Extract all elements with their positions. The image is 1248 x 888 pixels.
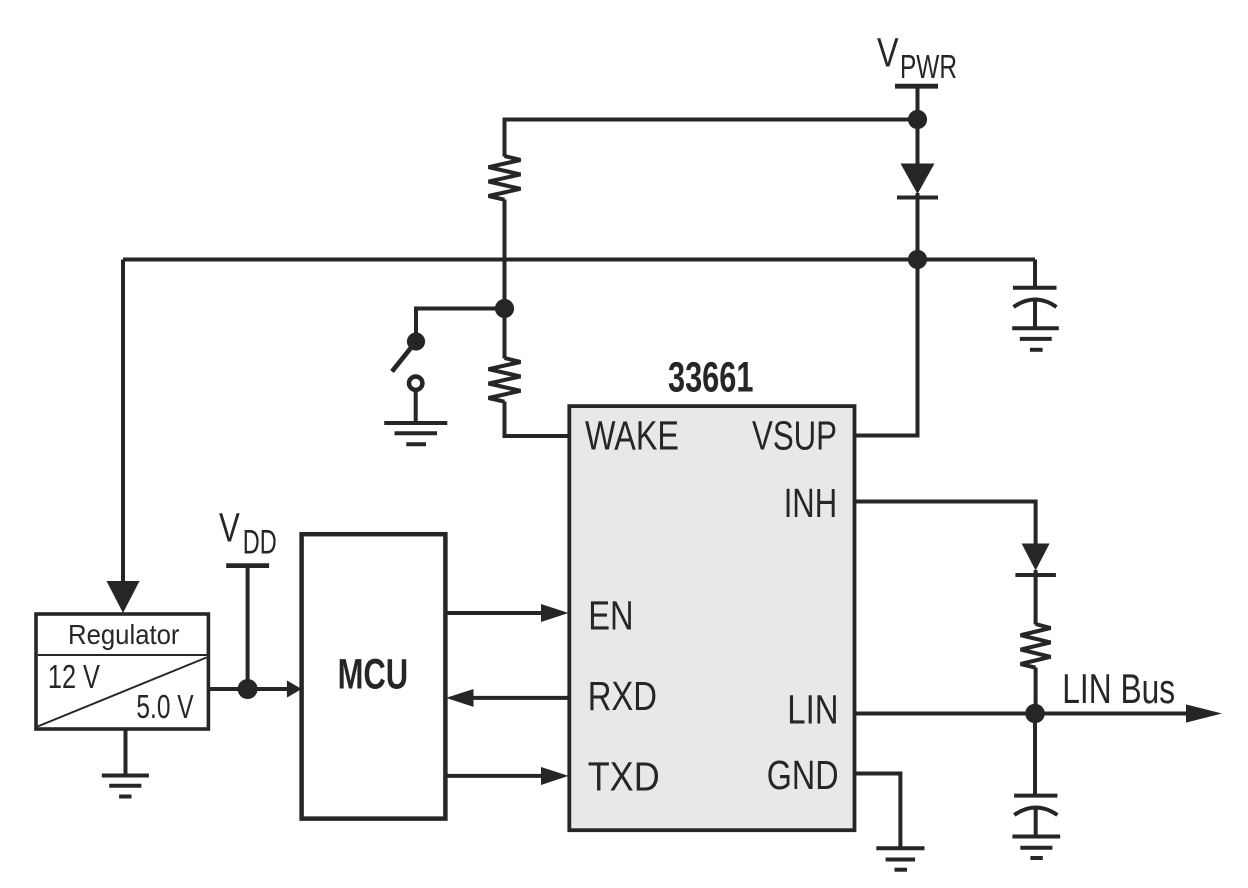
MCU body: [302, 534, 446, 818]
wire GND pin to ground: [855, 774, 901, 848]
svg-text:5.0 V: 5.0 V: [136, 688, 193, 725]
svg-text:EN: EN: [588, 593, 633, 639]
V_DD supply bar: [226, 563, 269, 568]
svg-text:PWR: PWR: [900, 48, 957, 85]
resistor R1: [489, 156, 521, 200]
wire regulator to ground: [124, 729, 128, 775]
wire long horizontal bus: [123, 258, 1035, 262]
IC 33661 body: [569, 406, 854, 830]
V_PWR supply bar: [895, 84, 938, 89]
wire D1 to VSUP node: [916, 193, 920, 260]
wire VSUP drop to pin: [855, 260, 918, 436]
svg-text:DD: DD: [243, 524, 277, 562]
wire V_DD to node: [246, 566, 250, 689]
switch lever: [392, 342, 416, 372]
wire node to switch: [416, 309, 505, 342]
svg-text:LIN: LIN: [787, 686, 838, 732]
resistor R3: [1021, 624, 1051, 668]
node V_DD junction: [238, 679, 258, 699]
svg-text:Regulator: Regulator: [68, 619, 180, 650]
svg-text:RXD: RXD: [588, 673, 657, 719]
node VSUP junction: [908, 250, 927, 269]
wire LIN to bus with arrow: [855, 704, 1223, 722]
ground for regulator: [102, 776, 149, 797]
diode D2: [1015, 544, 1056, 576]
wire R2 to WAKE pin: [505, 402, 571, 437]
net label V_PWR: [877, 30, 957, 86]
wire EN with arrow: [445, 604, 568, 622]
resistor R2: [489, 358, 521, 402]
wire INH to diode D2: [855, 502, 1036, 545]
ground for C1: [1012, 328, 1059, 350]
wire LIN node to capacitor C2: [1033, 714, 1037, 796]
net label V_DD: [219, 504, 277, 561]
wire V_PWR node to diode D1: [916, 120, 920, 166]
ground for C2: [1012, 837, 1060, 859]
wire regulator output to node: [208, 687, 247, 691]
wire node to MCU with arrow: [248, 680, 302, 697]
node V_PWR junction: [908, 110, 927, 129]
node WAKE junction: [495, 299, 514, 318]
svg-text:MCU: MCU: [338, 651, 409, 699]
arrow into regulator: [107, 581, 140, 613]
svg-text:33661: 33661: [668, 354, 753, 402]
wire RXD with arrow: [446, 689, 569, 707]
regulator box: [36, 614, 208, 729]
ground for switch: [384, 423, 447, 444]
wire R1 to WAKE node: [503, 200, 507, 309]
wire left drop to regulator: [121, 260, 125, 584]
svg-text:GND: GND: [767, 752, 839, 798]
svg-text:V: V: [219, 504, 240, 550]
wire switch to ground: [414, 390, 418, 424]
svg-text:INH: INH: [784, 480, 837, 526]
wire R3 to LIN node: [1034, 668, 1038, 714]
svg-text:V: V: [877, 30, 899, 76]
capacitor C1: [1013, 288, 1057, 329]
svg-text:VSUP: VSUP: [752, 412, 837, 458]
wire TXD with arrow: [445, 767, 568, 785]
ground for GND pin: [876, 848, 924, 870]
capacitor C2: [1014, 796, 1057, 837]
wire WAKE node to resistor R2: [503, 309, 507, 359]
wire V_PWR bar to node: [916, 86, 920, 120]
svg-text:TXD: TXD: [588, 754, 660, 800]
svg-text:WAKE: WAKE: [585, 412, 679, 458]
svg-text:LIN Bus: LIN Bus: [1062, 665, 1175, 712]
svg-text:12 V: 12 V: [48, 658, 100, 695]
wire corner down to resistor R1: [503, 118, 507, 157]
switch contact dot: [407, 332, 425, 350]
capacitor C1 lead: [1033, 260, 1037, 288]
diode D1: [897, 164, 938, 198]
wire D2 to resistor R3: [1034, 570, 1038, 625]
switch open contact: [409, 377, 422, 390]
node LIN junction: [1025, 704, 1045, 724]
wire top horizontal: [505, 118, 918, 122]
